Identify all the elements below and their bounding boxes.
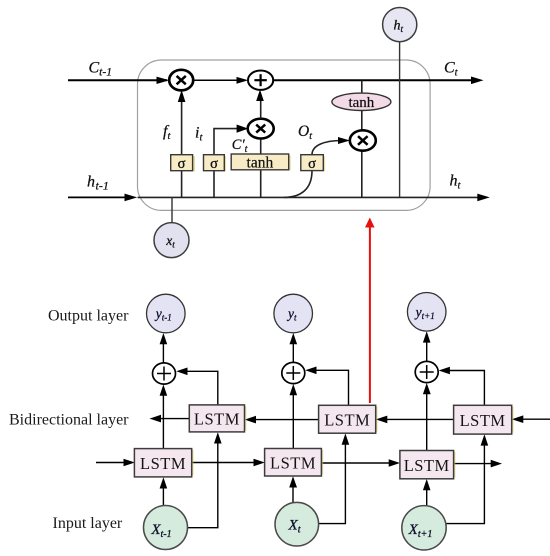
node X3 circle [402,506,446,550]
wire tanh branch from C line [361,80,363,93]
wire input gate stem up and over [214,129,245,155]
svg-text:Ct: Ct [444,60,459,79]
svg-text:it: it [195,125,203,144]
wire X1 branch to B1 [187,441,218,528]
wire input gate stem down [213,171,215,198]
wire X3 branch to B3 [446,443,485,524]
wire output multiply to h line [361,151,363,198]
LSTM box forward 1 [192,450,194,475]
wire multiply to add [194,79,246,81]
svg-text:σ: σ [210,156,218,172]
svg-text:LSTM: LSTM [140,454,186,473]
wire F3 to add3 [426,390,428,451]
node y1 circle [147,294,186,333]
multiply gate output [350,130,376,150]
add gate column 2 [282,362,305,383]
wire F1 to add1 [162,392,164,449]
tanh ellipse [332,93,391,110]
wire forget gate stem up [181,98,183,155]
node X1 circle [144,506,188,550]
node y3 circle [407,293,446,332]
wire X1 to F1 [162,486,164,505]
wire B2 to add2 [313,370,349,405]
sigma box forget gate [193,156,195,171]
svg-text:C′t: C′t [232,137,248,155]
wire B2 to B1 [252,419,319,421]
red arrow [369,227,371,404]
wire C input [68,79,167,81]
wire tanh to output multiply [361,111,363,132]
LSTM box backward 1 [245,406,247,430]
add gate column 3 [415,361,438,382]
wire add2 to y2 [292,341,294,362]
LSTM box forward 2 [321,450,323,475]
wire forget gate stem down [181,171,183,198]
node h_t circle [383,8,417,42]
tanh box candidate [289,156,291,171]
node y2 circle [274,294,313,333]
svg-text:ht: ht [450,173,462,192]
svg-text:Output layer: Output layer [48,307,129,324]
wire backward input [518,418,550,420]
node X2 circle [275,502,319,546]
wire F1 to F2 [192,462,257,464]
wire candidate stem up [260,139,262,154]
svg-text:Ot: Ot [298,123,312,142]
svg-text:Bidirectional layer: Bidirectional layer [9,411,129,428]
svg-text:ht-1: ht-1 [87,174,109,193]
LSTM box forward 3 [454,452,456,477]
cell body rounded rect [138,60,431,210]
multiply gate input [248,119,274,139]
wire h internal [138,196,480,198]
svg-text:LSTM: LSTM [194,410,240,429]
svg-text:tanh: tanh [247,155,274,172]
wire x_t stem [171,197,173,222]
LSTM box backward 3 [512,407,514,433]
add gate column 1 [153,363,176,384]
wire X2 branch to B2 [318,442,345,524]
sigma box output gate [323,156,325,171]
svg-text:ft: ft [163,123,171,142]
wire add3 to y3 [426,339,428,361]
wire output gate curve to output multiply [312,141,342,155]
svg-text:σ: σ [178,156,186,172]
svg-text:σ: σ [308,156,316,172]
svg-text:LSTM: LSTM [404,456,450,475]
svg-text:Input layer: Input layer [53,515,123,532]
wire B1 to add1 [185,371,218,405]
svg-text:LSTM: LSTM [324,411,370,430]
svg-text:Ct-1: Ct-1 [89,60,112,79]
wire C output [273,79,474,81]
wire F3 out [454,463,492,465]
wire h_t riser [399,42,401,197]
wire output gate curve down to h line [284,171,312,198]
wire candidate stem down [260,170,262,198]
wire forward input [96,462,128,464]
LSTM box backward 2 [376,407,378,432]
wire F2 to add2 [292,391,294,449]
multiply gate forget [169,70,193,91]
svg-text:LSTM: LSTM [270,454,316,473]
wire X3 to F3 [426,486,428,505]
wire B3 to add3 [446,371,484,406]
wire add1 to y1 [162,341,164,363]
wire input multiply to add [260,96,262,119]
wire B3 to B2 [382,418,454,420]
sigma box input gate [224,156,226,171]
svg-text:LSTM: LSTM [460,411,506,430]
wire X2 to F2 [292,484,294,502]
wire F2 to F3 [321,462,392,464]
wire B1 left out [158,418,189,420]
add gate cell [248,71,273,90]
node x_t circle [154,223,189,258]
svg-text:tanh: tanh [348,95,374,111]
wire h input [68,196,134,198]
